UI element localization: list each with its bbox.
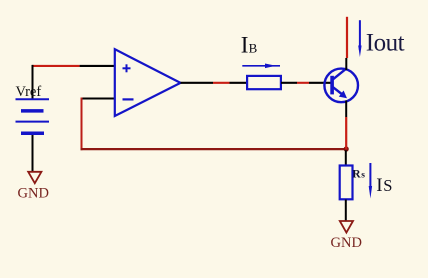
svg-text:Vref: Vref [16,84,42,100]
svg-text:I: I [376,175,382,196]
svg-text:B: B [249,41,258,56]
svg-text:s: s [361,171,365,181]
svg-text:GND: GND [331,235,362,251]
svg-text:GND: GND [18,185,49,201]
svg-text:Iout: Iout [366,29,405,56]
svg-text:S: S [383,176,392,195]
svg-text:R: R [352,169,361,181]
svg-text:I: I [241,33,249,58]
